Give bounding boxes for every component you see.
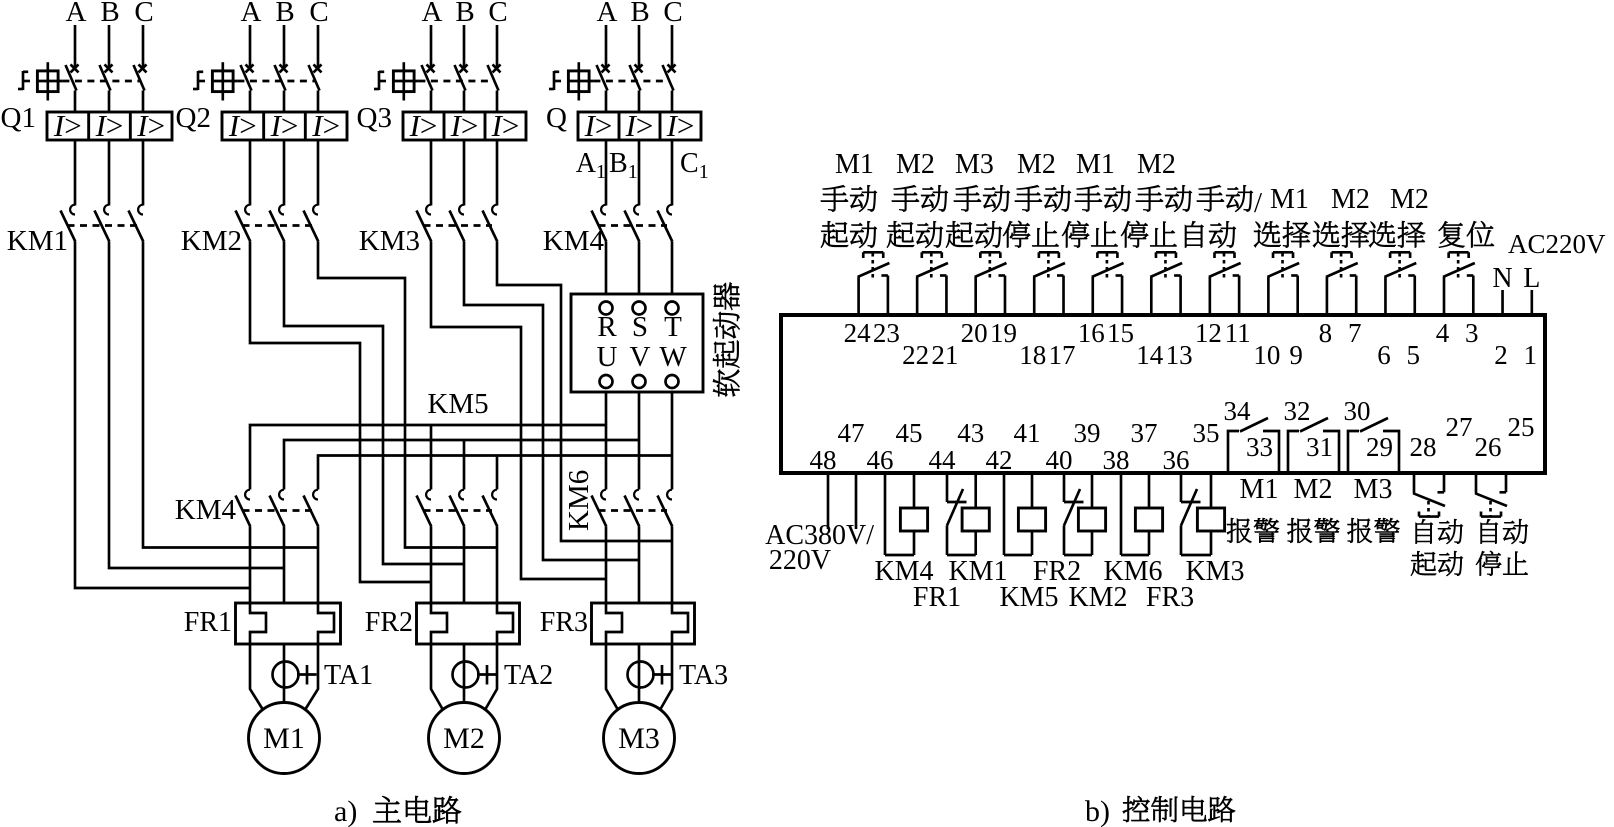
svg-text:28: 28 bbox=[1410, 432, 1437, 462]
labels auto start / auto stop bbox=[1416, 519, 1433, 543]
svg-text:37: 37 bbox=[1131, 418, 1158, 448]
overload release unit I> of Q1 bbox=[47, 112, 172, 140]
wire KM1 pole2 to FR1 input2 bbox=[109, 242, 284, 569]
svg-text:M1: M1 bbox=[1240, 474, 1279, 505]
svg-text:b): b) bbox=[1085, 795, 1110, 827]
svg-text:17: 17 bbox=[1048, 340, 1075, 370]
svg-text:Q: Q bbox=[546, 102, 567, 134]
svg-text:I>: I> bbox=[491, 108, 520, 143]
wire breaker Q1 blades to I> box bbox=[74, 91, 77, 113]
soft starter box with terminals R S T / U V W bbox=[571, 294, 703, 392]
svg-text:KM4: KM4 bbox=[175, 494, 237, 526]
wire KM6 to FR3 inputs bbox=[605, 527, 608, 604]
circuit breaker Q1 bbox=[22, 71, 25, 90]
wire KM3 pole2 to FR3 input2 bbox=[464, 242, 639, 561]
svg-text:a): a) bbox=[334, 795, 357, 827]
contactor KM6 contacts (above FR3) bbox=[601, 490, 606, 500]
svg-text:5: 5 bbox=[1406, 340, 1420, 370]
soft starter label (rotated) bbox=[713, 370, 739, 397]
wire soft starter W output down to KM6 pole3 bbox=[671, 392, 674, 490]
svg-text:B: B bbox=[100, 0, 119, 28]
current transformer TA2 bbox=[453, 662, 479, 688]
svg-text:I>: I> bbox=[311, 108, 340, 143]
svg-text:M2: M2 bbox=[1294, 474, 1333, 505]
svg-text:KM1: KM1 bbox=[7, 225, 68, 257]
svg-text:4: 4 bbox=[1436, 318, 1450, 348]
push button auto stop (terminals 26/25) bbox=[1475, 473, 1478, 493]
relay coil branch KM6 (terminals 38/37) bbox=[1120, 473, 1123, 555]
svg-text:30: 30 bbox=[1344, 396, 1371, 426]
svg-text:A: A bbox=[241, 0, 262, 28]
push button M2 select (terminals 8/7) bbox=[1326, 277, 1329, 315]
svg-text:16: 16 bbox=[1078, 318, 1105, 348]
svg-text:KM2: KM2 bbox=[181, 225, 242, 257]
svg-text:M1: M1 bbox=[835, 149, 874, 180]
svg-text:34: 34 bbox=[1224, 396, 1252, 426]
svg-text:A: A bbox=[66, 0, 87, 28]
svg-text:KM2: KM2 bbox=[1068, 582, 1127, 613]
svg-text:I>: I> bbox=[228, 108, 257, 143]
alarm output contact M1 (34/33) bbox=[1228, 431, 1239, 471]
svg-text:/: / bbox=[1254, 187, 1263, 219]
svg-text:Q3: Q3 bbox=[357, 102, 392, 134]
wire KM4 contacts to soft starter R S T bbox=[605, 242, 608, 295]
svg-text:11: 11 bbox=[1225, 318, 1251, 348]
svg-text:38: 38 bbox=[1103, 445, 1130, 475]
wire FR to motor M1 leads bbox=[250, 644, 263, 709]
wire bus V phase bbox=[284, 440, 639, 490]
push button M1 manual start (terminals 24/23) bbox=[857, 277, 860, 315]
svg-text:19: 19 bbox=[990, 318, 1017, 348]
push button M3 manual start (terminals 20/19) bbox=[974, 277, 977, 315]
svg-text:V: V bbox=[630, 341, 651, 373]
push button reset (terminals 4/3) bbox=[1443, 277, 1446, 315]
svg-text:T: T bbox=[664, 311, 682, 343]
wire KM3 pole3 to FR3 input3 bbox=[497, 242, 672, 542]
circuit breaker Q bbox=[553, 71, 556, 90]
svg-text:31: 31 bbox=[1306, 432, 1333, 462]
push button manual/auto selector (terminals 12/11) bbox=[1209, 277, 1212, 315]
svg-text:20: 20 bbox=[961, 318, 988, 348]
svg-text:Q2: Q2 bbox=[176, 102, 211, 134]
svg-text:TA3: TA3 bbox=[679, 660, 728, 691]
svg-text:B: B bbox=[275, 0, 294, 28]
thermal relay FR3 bbox=[592, 603, 695, 644]
wire incoming phases feed 4 bbox=[605, 25, 608, 67]
svg-text:6: 6 bbox=[1377, 340, 1391, 370]
svg-text:42: 42 bbox=[986, 445, 1013, 475]
alarm output contact M2 (32/31) bbox=[1288, 431, 1299, 471]
svg-text:I>: I> bbox=[625, 108, 654, 143]
svg-text:13: 13 bbox=[1166, 340, 1193, 370]
wire KM2 pole2 to FR2 input2 bbox=[284, 242, 464, 565]
labels baojing x3 bbox=[1227, 518, 1251, 543]
svg-text:46: 46 bbox=[867, 445, 894, 475]
svg-text:I>: I> bbox=[53, 108, 82, 143]
wire KM2 pole3 to FR2 input3 bbox=[318, 242, 497, 548]
wire breaker Q2 blades to I> box bbox=[249, 91, 252, 113]
svg-text:FR3: FR3 bbox=[540, 607, 588, 638]
svg-text:I>: I> bbox=[450, 108, 479, 143]
push button M2 manual start (terminals 22/21) bbox=[916, 277, 919, 315]
svg-text:36: 36 bbox=[1163, 445, 1190, 475]
wire tap bus V to KM5 pole2 bbox=[463, 440, 466, 490]
wire L terminal bbox=[1530, 290, 1533, 315]
thermal relay FR1 bbox=[236, 603, 341, 644]
push button M2 manual stop (terminals 18/17) bbox=[1033, 277, 1036, 315]
wire KM1 pole1 to FR1 input1 bbox=[75, 242, 250, 589]
wire KM5 to FR2 inputs bbox=[430, 527, 433, 604]
svg-text:W: W bbox=[659, 341, 687, 373]
push button M1 select (terminals 10/9) bbox=[1267, 277, 1270, 315]
wire breaker Q blades to I> box bbox=[605, 91, 608, 113]
svg-text:KM3: KM3 bbox=[1185, 556, 1244, 587]
overload release unit I> of Q3 bbox=[403, 112, 526, 140]
svg-text:M2: M2 bbox=[443, 722, 485, 755]
svg-text:25: 25 bbox=[1508, 412, 1535, 442]
contactor KM4 main contacts (soft starter feed) bbox=[601, 205, 606, 215]
svg-text:B: B bbox=[630, 0, 649, 28]
svg-text:43: 43 bbox=[957, 418, 984, 448]
current transformer TA1 bbox=[273, 662, 299, 688]
wire I> box Q2 down bbox=[249, 140, 252, 206]
svg-text:I>: I> bbox=[584, 108, 613, 143]
svg-text:S: S bbox=[632, 311, 648, 343]
svg-text:24: 24 bbox=[844, 318, 872, 348]
svg-text:KM6: KM6 bbox=[563, 470, 595, 531]
relay coil branch KM5 (terminals 42/41) bbox=[1003, 473, 1006, 555]
overload release unit I> of Q2 bbox=[222, 112, 347, 140]
svg-text:I>: I> bbox=[666, 108, 695, 143]
overload release unit I> of Q bbox=[578, 112, 701, 140]
wire soft starter U output down to KM6 pole1 bbox=[605, 392, 608, 490]
wire N terminal bbox=[1501, 290, 1504, 315]
thermal relay FR2 bbox=[417, 603, 520, 644]
svg-text:1: 1 bbox=[1524, 340, 1538, 370]
svg-text:C: C bbox=[309, 0, 328, 28]
wire FR to motor M2 leads bbox=[431, 644, 443, 709]
svg-text:44: 44 bbox=[929, 445, 957, 475]
svg-text:48: 48 bbox=[810, 445, 837, 475]
wire incoming phases feed 2 bbox=[249, 25, 252, 67]
svg-text:10: 10 bbox=[1253, 340, 1280, 370]
wire KM1 pole3 to FR1 input3 bbox=[143, 242, 318, 548]
circuit breaker Q3 bbox=[378, 71, 381, 90]
svg-text:45: 45 bbox=[896, 418, 923, 448]
svg-text:A: A bbox=[597, 0, 618, 28]
svg-text:KM4: KM4 bbox=[543, 225, 605, 257]
svg-text:220V: 220V bbox=[769, 545, 831, 576]
current transformer TA3 bbox=[628, 662, 654, 688]
contactor KM2 main contacts bbox=[245, 205, 250, 215]
svg-text:KM3: KM3 bbox=[359, 225, 420, 257]
svg-text:KM5: KM5 bbox=[999, 582, 1058, 613]
svg-text:M2: M2 bbox=[1390, 184, 1429, 215]
wire tap bus W to KM5 pole3 bbox=[496, 456, 499, 490]
wire bus U phase (KM5 label net) bbox=[250, 425, 606, 490]
svg-text:TA2: TA2 bbox=[504, 660, 553, 691]
svg-text:14: 14 bbox=[1136, 340, 1164, 370]
wire KM3 pole1 to FR3 input1 bbox=[431, 242, 606, 580]
svg-text:41: 41 bbox=[1014, 418, 1041, 448]
svg-text:M1: M1 bbox=[1270, 184, 1309, 215]
svg-text:26: 26 bbox=[1475, 432, 1502, 462]
svg-text:M2: M2 bbox=[1137, 149, 1176, 180]
svg-text:FR2: FR2 bbox=[365, 607, 413, 638]
svg-text:FR1: FR1 bbox=[184, 607, 232, 638]
svg-text:TA1: TA1 bbox=[324, 660, 373, 691]
push button M1 manual stop (terminals 16/15) bbox=[1091, 277, 1094, 315]
svg-text:C: C bbox=[663, 0, 682, 28]
relay coil branch FR1+KM1 (terminals 44/43) bbox=[946, 473, 949, 502]
relay coil branch FR2+KM2 (terminals 40/39) bbox=[1063, 473, 1066, 502]
push button auto start (terminals 28/27) bbox=[1413, 473, 1416, 493]
wire AC supply terminal 48 bbox=[827, 473, 830, 529]
svg-text:M3: M3 bbox=[1354, 474, 1393, 505]
svg-text:3: 3 bbox=[1465, 318, 1479, 348]
wire soft starter V output down to KM6 pole2 bbox=[638, 392, 641, 490]
svg-text:N: N bbox=[1492, 263, 1512, 294]
svg-text:M2: M2 bbox=[896, 149, 935, 180]
svg-text:M1: M1 bbox=[1076, 149, 1115, 180]
svg-text:8: 8 bbox=[1319, 318, 1333, 348]
svg-text:M2: M2 bbox=[1331, 184, 1370, 215]
wire KM4 to FR1 inputs bbox=[249, 527, 252, 604]
svg-text:2: 2 bbox=[1494, 340, 1508, 370]
svg-text:35: 35 bbox=[1193, 418, 1220, 448]
wire KM2 pole1 to FR2 input1 bbox=[250, 242, 431, 583]
svg-text:22: 22 bbox=[902, 340, 929, 370]
relay coil branch KM4 (terminals 46/45) bbox=[884, 473, 887, 555]
motor M3 bbox=[604, 703, 675, 774]
svg-text:29: 29 bbox=[1366, 432, 1393, 462]
svg-text:23: 23 bbox=[873, 318, 900, 348]
labels row qidong/tingzhi/zidong/xuanze/fuwei bbox=[821, 221, 848, 247]
wire breaker Q3 blades to I> box bbox=[430, 91, 433, 113]
svg-text:I>: I> bbox=[409, 108, 438, 143]
wire bus W phase bbox=[318, 456, 672, 490]
controller box bbox=[781, 315, 1545, 473]
svg-text:32: 32 bbox=[1284, 396, 1311, 426]
svg-text:15: 15 bbox=[1107, 318, 1134, 348]
svg-text:M2: M2 bbox=[1017, 149, 1056, 180]
wire AC supply terminal 47 bbox=[855, 473, 858, 529]
svg-text:C: C bbox=[134, 0, 153, 28]
svg-text:A: A bbox=[422, 0, 443, 28]
contactor KM5 contacts (above FR2) bbox=[426, 490, 431, 500]
svg-text:18: 18 bbox=[1019, 340, 1046, 370]
wire I> box Q1 down bbox=[74, 140, 77, 206]
contactor KM4 bypass contacts (above FR1) bbox=[245, 490, 250, 500]
svg-text:M1: M1 bbox=[263, 722, 305, 755]
wire incoming phases feed 1 bbox=[74, 25, 77, 67]
svg-text:I>: I> bbox=[136, 108, 165, 143]
svg-text:R: R bbox=[597, 311, 617, 343]
svg-text:Q1: Q1 bbox=[1, 102, 36, 134]
relay coil branch FR3+KM3 (terminals 36/35) bbox=[1180, 473, 1183, 502]
svg-text:C: C bbox=[488, 0, 507, 28]
svg-text:U: U bbox=[597, 341, 618, 373]
svg-text:AC220V: AC220V bbox=[1508, 229, 1606, 259]
svg-text:9: 9 bbox=[1289, 340, 1303, 370]
svg-text:FR3: FR3 bbox=[1146, 582, 1194, 613]
contactor KM1 main contacts bbox=[70, 205, 75, 215]
svg-text:47: 47 bbox=[838, 418, 865, 448]
svg-text:I>: I> bbox=[270, 108, 299, 143]
svg-text:M3: M3 bbox=[618, 722, 660, 755]
svg-text:FR1: FR1 bbox=[913, 582, 961, 613]
svg-text:27: 27 bbox=[1446, 412, 1473, 442]
contactor KM3 main contacts bbox=[426, 205, 431, 215]
svg-text:7: 7 bbox=[1348, 318, 1362, 348]
alarm output contact M3 (30/29) bbox=[1348, 431, 1359, 471]
motor M1 bbox=[249, 703, 320, 774]
wire I> box Q down bbox=[605, 140, 608, 206]
wire I> box Q3 down bbox=[430, 140, 433, 206]
push button M2 manual stop (terminals 14/13) bbox=[1150, 277, 1153, 315]
wire FR to motor M3 leads bbox=[606, 644, 618, 709]
svg-text:21: 21 bbox=[931, 340, 958, 370]
push button M2 select (terminals 6/5) bbox=[1384, 277, 1387, 315]
wire tap bus U to KM5 pole1 bbox=[430, 425, 433, 490]
motor M2 bbox=[429, 703, 500, 774]
svg-text:B: B bbox=[455, 0, 474, 28]
svg-text:I>: I> bbox=[95, 108, 124, 143]
circuit breaker Q2 bbox=[197, 71, 200, 90]
svg-text:M3: M3 bbox=[955, 149, 994, 180]
svg-text:12: 12 bbox=[1195, 318, 1222, 348]
svg-text:40: 40 bbox=[1046, 445, 1073, 475]
labels row shoudong x7 + M1 M2 M2 bbox=[821, 185, 848, 211]
svg-text:KM5: KM5 bbox=[427, 388, 488, 420]
wire incoming phases feed 3 bbox=[430, 25, 433, 67]
svg-text:39: 39 bbox=[1074, 418, 1101, 448]
svg-text:33: 33 bbox=[1246, 432, 1273, 462]
svg-text:L: L bbox=[1523, 263, 1540, 294]
